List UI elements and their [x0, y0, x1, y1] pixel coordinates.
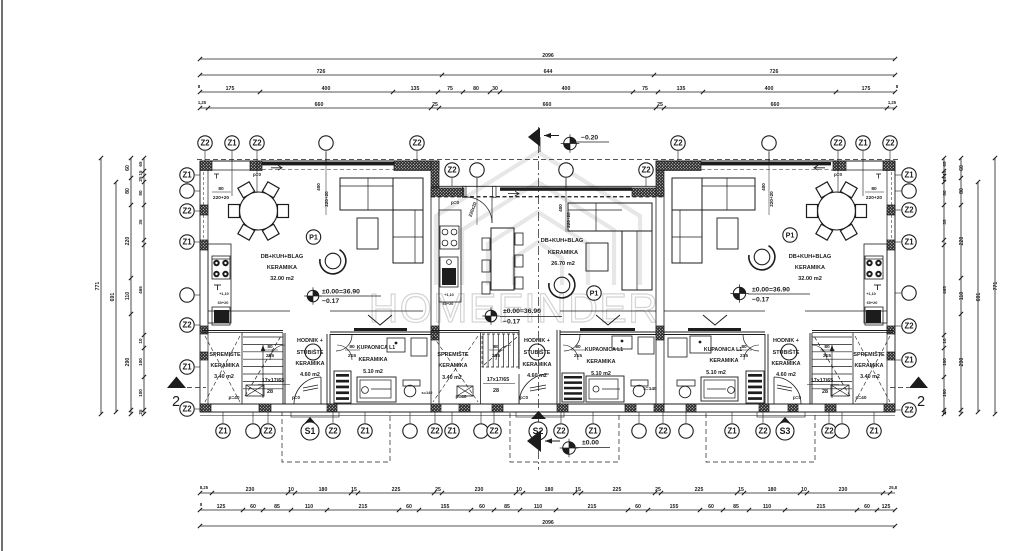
svg-text:80: 80	[138, 190, 143, 196]
elevation marker left unit	[307, 290, 319, 302]
svg-text:465: 465	[138, 286, 143, 294]
svg-text:60: 60	[635, 504, 641, 510]
porch outline left unit	[282, 412, 390, 462]
P1 label middle unit	[587, 286, 601, 300]
grid bubble Z2 top right-mid pier	[671, 136, 685, 150]
svg-text:Z2: Z2	[412, 139, 422, 148]
svg-text:−0.17: −0.17	[503, 319, 520, 326]
svg-text:KERAMIKA: KERAMIKA	[210, 363, 239, 369]
right dimension line detail 1	[960, 158, 962, 414]
svg-text:660: 660	[315, 102, 324, 108]
svg-text:Z2: Z2	[182, 405, 192, 414]
left dimension line 691	[115, 182, 117, 412]
grid bubble Z1 left y175	[195, 174, 200, 176]
washbasin right unit	[690, 336, 711, 353]
svg-text:220+20: 220+20	[213, 195, 229, 201]
exterior wall left	[199, 161, 201, 412]
level marker bottom centre	[527, 430, 541, 452]
watermark house logo	[436, 152, 640, 285]
page border left edge	[1, 0, 3, 551]
grid bubble Z2 middle unit left	[445, 163, 459, 177]
washing machine right unit	[668, 338, 687, 357]
svg-text:85: 85	[504, 504, 510, 510]
sofa middle unit	[568, 203, 652, 231]
svg-text:220+20: 220+20	[324, 191, 329, 207]
svg-text:85: 85	[733, 504, 739, 510]
svg-text:220+20: 220+20	[566, 212, 571, 228]
svg-text:2096: 2096	[542, 520, 554, 526]
svg-text:HODNIK +: HODNIK +	[297, 338, 323, 344]
section bubble S3	[778, 417, 792, 425]
coffee table right unit	[717, 218, 738, 249]
svg-text:155: 155	[441, 504, 450, 510]
grid bubble Z1 bottom x365	[364, 412, 366, 423]
grid bubble Z1 top right	[856, 136, 870, 150]
svg-text:65: 65	[942, 161, 947, 167]
svg-text:230: 230	[246, 487, 255, 493]
svg-text:p=0: p=0	[793, 395, 801, 400]
grid bubble plain bottom x842	[841, 412, 843, 423]
svg-text:60: 60	[250, 504, 256, 510]
dining table middle unit	[491, 228, 514, 290]
svg-text:Z2: Z2	[904, 322, 914, 331]
svg-text:400: 400	[765, 86, 774, 92]
svg-text:400: 400	[562, 86, 571, 92]
svg-text:KERAMIKA: KERAMIKA	[548, 250, 578, 256]
grid bubble Z2 bottom x829	[828, 412, 830, 423]
svg-text:Z2: Z2	[824, 427, 834, 436]
washbasin left unit	[387, 338, 405, 352]
door bath right unit	[743, 335, 759, 351]
svg-text:8,25: 8,25	[200, 485, 209, 490]
svg-text:Z2: Z2	[641, 166, 651, 175]
sink right unit	[865, 307, 883, 325]
svg-text:Z1: Z1	[360, 427, 370, 436]
svg-text:771: 771	[95, 282, 101, 291]
bathroom front wall right unit	[664, 310, 765, 312]
wall storage-stairs left unit	[241, 333, 243, 404]
svg-text:STUBIŠTE: STUBIŠTE	[524, 348, 551, 356]
svg-text:s=140: s=140	[643, 386, 657, 392]
entry door middle unit	[519, 403, 549, 405]
grid bubble plain left y295	[195, 294, 200, 296]
round dining table right unit	[818, 192, 856, 230]
grid bubble Z2 top left 2	[250, 136, 264, 150]
coffee table left unit	[357, 218, 378, 249]
kitchen bottom line right unit	[805, 310, 887, 312]
svg-text:80: 80	[824, 344, 830, 350]
right dimension line 691	[977, 182, 979, 412]
svg-text:726: 726	[770, 69, 779, 75]
bathtub left unit	[357, 377, 396, 402]
bathroom front wall middle unit	[560, 310, 656, 312]
armchair right unit	[754, 249, 770, 265]
svg-text:Z2: Z2	[833, 139, 843, 148]
svg-text:110: 110	[959, 292, 965, 300]
section mark 2 left	[167, 377, 186, 389]
wall stairs-storage right unit	[852, 333, 854, 404]
level marker top centre	[528, 128, 540, 147]
svg-text:25: 25	[138, 176, 143, 182]
svg-text:60: 60	[406, 504, 412, 510]
svg-text:Z2: Z2	[489, 427, 499, 436]
bottom dimension line detail segments	[200, 492, 895, 494]
svg-text:28: 28	[267, 389, 273, 395]
svg-text:80: 80	[218, 186, 224, 192]
interior walls middle unit	[431, 330, 519, 332]
recessed top wall middle unit	[431, 185, 664, 187]
svg-text:25: 25	[657, 102, 663, 108]
party wall middle-right	[655, 196, 657, 404]
grid bubble Z2 top left-mid pier	[410, 136, 424, 150]
svg-text:28: 28	[822, 389, 828, 395]
left dimension line total 771	[100, 158, 102, 414]
svg-text:2: 2	[172, 394, 180, 410]
svg-text:60: 60	[864, 504, 870, 510]
corner pier middle-right	[632, 188, 664, 196]
bottom wall	[200, 403, 895, 405]
svg-text:110: 110	[534, 504, 542, 510]
section bubble S1	[303, 417, 317, 425]
bottom dimension line total 2096	[200, 525, 895, 527]
svg-text:KERAMIKA: KERAMIKA	[522, 362, 551, 368]
svg-text:225: 225	[695, 487, 704, 493]
svg-text:DB+KUH+BLAG: DB+KUH+BLAG	[789, 254, 832, 260]
svg-text:±0.00=36.90: ±0.00=36.90	[752, 287, 790, 294]
svg-text:1,25: 1,25	[198, 100, 207, 105]
svg-text:KUPAONICA L1: KUPAONICA L1	[357, 345, 395, 351]
svg-text:P1: P1	[590, 289, 599, 298]
svg-text:135: 135	[411, 86, 420, 92]
svg-text:s=140: s=140	[422, 390, 433, 395]
svg-text:Z2: Z2	[430, 427, 440, 436]
grid bubble plain left y191	[195, 190, 200, 192]
svg-text:Z1: Z1	[227, 139, 237, 148]
party wall left-middle	[430, 196, 432, 404]
grid bubble Z1 right y242	[895, 241, 901, 243]
top dimension line total 2096	[200, 58, 895, 60]
svg-text:110: 110	[125, 292, 131, 300]
grid bubble plain bottom x639	[638, 412, 640, 423]
svg-text:3.40 m2: 3.40 m2	[860, 374, 880, 380]
stairs middle unit	[482, 334, 484, 367]
svg-text:60: 60	[708, 504, 714, 510]
porch outline middle unit	[510, 412, 619, 462]
grid bubble Z2 top right 2	[831, 136, 845, 150]
svg-text:28: 28	[493, 388, 499, 394]
exterior wall right	[894, 161, 896, 412]
svg-text:215: 215	[359, 504, 368, 510]
svg-text:STUBIŠTE: STUBIŠTE	[773, 348, 800, 356]
left dimension line detail 1	[130, 158, 132, 414]
right dimension line detail 2	[943, 158, 945, 414]
grid bubble plain bottom x253	[252, 412, 254, 423]
grid bubble Z2 bottom x333	[332, 412, 334, 423]
svg-text:+1,10: +1,10	[866, 292, 876, 296]
grid bubble Z1 right y175	[895, 174, 901, 176]
sink left unit	[212, 307, 230, 325]
sofa right unit	[672, 178, 755, 210]
svg-text:100: 100	[138, 358, 143, 366]
building centre axis line	[538, 127, 540, 470]
armchair left unit	[325, 253, 341, 269]
svg-text:p=40: p=40	[228, 395, 239, 401]
svg-text:60+20: 60+20	[867, 301, 878, 305]
svg-text:125: 125	[882, 504, 891, 510]
svg-text:155: 155	[670, 504, 679, 510]
section mark 2 right	[909, 377, 928, 389]
svg-text:80: 80	[349, 344, 355, 350]
svg-text:Z1: Z1	[588, 427, 598, 436]
grid bubble plain bottom x481	[480, 412, 482, 423]
svg-text:60+20: 60+20	[218, 301, 229, 305]
wall hall-stairs right unit	[809, 333, 811, 404]
svg-text:175: 175	[226, 86, 235, 92]
svg-text:STUBIŠTE: STUBIŠTE	[297, 348, 324, 356]
svg-text:25: 25	[432, 102, 438, 108]
svg-text:225: 225	[392, 487, 401, 493]
svg-text:60: 60	[125, 165, 131, 171]
coffee table middle unit	[586, 243, 608, 271]
svg-text:15: 15	[738, 487, 744, 493]
svg-text:220: 220	[125, 237, 131, 246]
svg-text:Z2: Z2	[556, 427, 566, 436]
svg-text:80: 80	[741, 344, 747, 350]
grid bubble Z2 bottom x494	[493, 412, 495, 423]
wall hall-bath left unit	[326, 334, 328, 404]
grid bubble Z2 right y410	[895, 409, 901, 411]
svg-text:35: 35	[942, 219, 947, 225]
svg-text:Z2: Z2	[904, 406, 914, 415]
svg-text:25: 25	[138, 409, 143, 415]
porch outline right unit	[706, 412, 815, 462]
svg-text:691: 691	[110, 293, 116, 302]
svg-text:Z1: Z1	[904, 171, 914, 180]
svg-text:KERAMIKA: KERAMIKA	[267, 265, 297, 271]
svg-text:1,25: 1,25	[888, 100, 897, 105]
svg-text:±0.00: ±0.00	[582, 440, 599, 447]
entry door left unit	[294, 403, 321, 405]
svg-text:Z1: Z1	[858, 139, 868, 148]
svg-text:Z1: Z1	[182, 363, 192, 372]
svg-text:10: 10	[942, 338, 947, 344]
grid bubble plain middle unit right	[559, 163, 573, 177]
svg-text:10: 10	[138, 338, 143, 344]
svg-text:135: 135	[677, 86, 686, 92]
svg-text:15: 15	[575, 487, 581, 493]
svg-text:HODNIK +: HODNIK +	[524, 338, 550, 344]
entry door right unit	[774, 403, 801, 405]
svg-text:KERAMIKA: KERAMIKA	[709, 358, 738, 364]
window band right unit top	[701, 162, 831, 165]
svg-text:Z2: Z2	[885, 139, 895, 148]
svg-text:25: 25	[942, 409, 947, 415]
svg-text:10: 10	[801, 487, 807, 493]
svg-text:KUPAONICA L1: KUPAONICA L1	[585, 347, 623, 353]
svg-text:32.00 m2: 32.00 m2	[798, 276, 822, 282]
kitchen counter middle unit	[439, 210, 461, 302]
svg-text:2096: 2096	[542, 53, 554, 59]
svg-text:Z2: Z2	[758, 427, 768, 436]
svg-text:15: 15	[351, 487, 357, 493]
svg-text:S1: S1	[305, 426, 316, 436]
svg-text:80: 80	[942, 190, 947, 196]
svg-text:Z2: Z2	[673, 139, 683, 148]
washing machine left unit	[411, 338, 427, 356]
armchair middle unit	[554, 277, 570, 293]
svg-text:110: 110	[763, 504, 771, 510]
stairs left unit	[243, 336, 283, 338]
bathroom window mark right unit	[703, 315, 727, 325]
section bubble S2	[531, 411, 546, 419]
svg-text:85: 85	[274, 504, 280, 510]
svg-text:±0.00=36.90: ±0.00=36.90	[322, 289, 360, 296]
grid bubble Z2 bottom x763	[762, 412, 764, 423]
top wall left unit	[200, 160, 439, 162]
top dimension line 726-644-726	[200, 74, 895, 76]
grid bubble Z2 bottom x268	[267, 412, 269, 423]
svg-text:2: 2	[917, 394, 925, 410]
svg-text:DB+KUH+BLAG: DB+KUH+BLAG	[261, 254, 304, 260]
grid bubble Z2 bottom x561	[560, 412, 562, 423]
svg-text:26.70 m2: 26.70 m2	[551, 261, 575, 267]
interior wall right unit storage-stair top	[812, 330, 893, 332]
sink middle unit	[440, 257, 458, 287]
interior wall left unit storage-stair top	[202, 330, 283, 332]
round dining table left unit	[240, 192, 278, 230]
svg-text:Z1: Z1	[182, 238, 192, 247]
svg-text:75: 75	[642, 86, 648, 92]
window axis label right unit	[768, 152, 770, 215]
kitchen tap right unit	[874, 284, 881, 286]
grid bubble Z1 top left	[225, 136, 239, 150]
svg-text:75: 75	[447, 86, 453, 92]
svg-text:80: 80	[473, 86, 479, 92]
kitchen bottom line left unit	[208, 310, 290, 312]
kitchen counter left unit	[208, 244, 231, 323]
bathroom window mark middle unit	[596, 315, 620, 325]
svg-text:P1: P1	[309, 233, 318, 242]
elevation marker right unit	[733, 287, 745, 299]
grid bubble Z1 bottom x223	[222, 412, 224, 423]
svg-text:660: 660	[771, 102, 780, 108]
svg-text:215: 215	[588, 504, 597, 510]
svg-text:80: 80	[871, 186, 877, 192]
svg-text:60: 60	[479, 504, 485, 510]
svg-text:25: 25	[942, 176, 947, 182]
svg-text:80: 80	[267, 344, 273, 350]
bathroom front wall left unit	[330, 310, 423, 312]
svg-text:230: 230	[839, 487, 848, 493]
grid bubble Z1 right y360	[895, 359, 901, 361]
shower left unit	[334, 371, 351, 403]
svg-text:660: 660	[543, 102, 552, 108]
grid bubble plain top right window	[762, 136, 776, 150]
svg-text:4.60 m2: 4.60 m2	[776, 372, 796, 378]
svg-text:17x17/65: 17x17/65	[811, 378, 833, 384]
P1 label right unit	[783, 228, 797, 242]
svg-text:p=0: p=0	[292, 395, 300, 400]
bathtub right unit	[701, 377, 738, 401]
wall bath-hall right unit	[764, 334, 766, 404]
svg-text:KERAMIKA: KERAMIKA	[854, 363, 883, 369]
grid bubble plain right y191	[895, 190, 901, 192]
svg-text:180: 180	[319, 487, 328, 493]
grid bubble Z2 bottom x663	[662, 412, 664, 423]
svg-text:KERAMIKA: KERAMIKA	[295, 361, 324, 367]
svg-text:100: 100	[942, 389, 947, 397]
svg-text:644: 644	[544, 69, 553, 75]
stove right unit	[865, 256, 883, 279]
grid bubble Z2 right y210	[895, 209, 901, 211]
svg-text:691: 691	[976, 293, 982, 302]
svg-text:400: 400	[322, 86, 331, 92]
svg-text:17x17/65: 17x17/65	[487, 377, 509, 383]
svg-text:HODNIK +: HODNIK +	[773, 338, 799, 344]
right dimension line total 771	[994, 158, 996, 414]
svg-text:Z2: Z2	[252, 139, 262, 148]
grid bubble plain right y293	[895, 292, 901, 294]
svg-text:400: 400	[761, 183, 766, 191]
top dimension line 660 walls	[200, 107, 895, 109]
svg-text:KERAMIKA: KERAMIKA	[586, 359, 615, 365]
toilet right unit	[677, 380, 695, 386]
top wall right unit	[656, 160, 895, 162]
faucet right wall	[876, 173, 881, 175]
svg-text:220: 220	[959, 237, 965, 246]
bottom terrace line	[200, 415, 895, 417]
grid bubble Z1 left y367	[195, 366, 200, 368]
washbasin middle unit	[612, 336, 632, 349]
svg-text:KUPAONICA L1: KUPAONICA L1	[704, 347, 742, 353]
stove left unit	[212, 256, 230, 279]
svg-text:SPREMIŠTE: SPREMIŠTE	[209, 350, 241, 358]
svg-text:35: 35	[138, 219, 143, 225]
svg-text:726: 726	[317, 69, 326, 75]
svg-text:Z1: Z1	[904, 356, 914, 365]
grid bubble Z1 bottom x452	[451, 412, 453, 423]
svg-text:80: 80	[125, 188, 131, 194]
svg-text:17x17/65: 17x17/65	[262, 378, 284, 384]
svg-text:215: 215	[817, 504, 826, 510]
svg-text:Z2: Z2	[182, 321, 192, 330]
svg-text:−0.20: −0.20	[581, 135, 598, 142]
svg-text:5.10 m2: 5.10 m2	[706, 370, 726, 376]
svg-text:KERAMIKA: KERAMIKA	[358, 357, 387, 363]
svg-text:−0.17: −0.17	[752, 297, 769, 304]
svg-text:400: 400	[558, 204, 563, 212]
grid bubble plain bottom x686	[685, 412, 687, 423]
door hatch symbol middle unit	[457, 386, 473, 396]
svg-text:Z1: Z1	[218, 427, 228, 436]
svg-text:15: 15	[138, 170, 143, 176]
svg-text:220+20: 220+20	[866, 195, 882, 201]
svg-text:125: 125	[217, 504, 226, 510]
grid bubble Z2 middle unit right	[639, 163, 653, 177]
svg-text:S3: S3	[780, 426, 791, 436]
svg-text:80: 80	[959, 188, 965, 194]
svg-text:465: 465	[942, 286, 947, 294]
sofa left unit	[340, 178, 423, 210]
svg-text:25,8: 25,8	[889, 485, 898, 490]
svg-text:110: 110	[305, 504, 313, 510]
svg-text:4.60 m2: 4.60 m2	[527, 373, 547, 379]
door hatch symbol right unit	[831, 385, 849, 396]
grid bubble Z2 left y409	[195, 408, 200, 410]
svg-text:80: 80	[575, 344, 581, 350]
svg-text:Z2: Z2	[447, 166, 457, 175]
svg-text:5.10 m2: 5.10 m2	[363, 369, 383, 375]
